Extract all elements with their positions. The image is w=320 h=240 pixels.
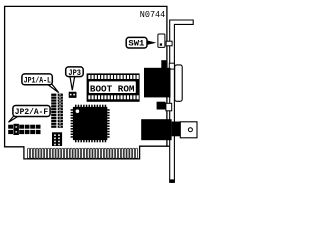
edge connector gold fingers [28,148,138,158]
stub pass-through tab on bracket [169,63,174,69]
BOOT ROM label box [88,81,136,94]
connector J2 body (black, on board) [141,119,171,140]
BOOT ROM bottom pin row [88,95,138,99]
label JP2/A-F (callout) [9,116,19,122]
J2 jack pin circle [188,128,192,132]
small IC U2 (black with pin dots) [52,132,62,146]
connector stub above J1 [161,60,166,68]
BOOT ROM chip body [87,73,140,101]
U1 pin-1 dot [76,109,80,113]
IC U1 (QFP, black square with pins) [71,105,110,143]
svg-text:N0744: N0744 [140,10,165,20]
connector J1 body (black, on board) [144,68,171,98]
svg-text:JP3: JP3 [68,70,81,78]
J2 jack housing [180,122,197,138]
connector J1 external shell (through bracket) [175,65,183,101]
label JP3 (callout) [70,76,75,90]
jumper block JP2 (2 x 6) [8,125,40,134]
bracket (metal mounting bracket, right side) [170,20,194,182]
J2 stub through bracket [172,122,181,137]
jumper cap on JP2 column 2 [13,124,19,135]
board bottom edge continuation to bracket [167,145,170,147]
switch SW1 (body on right edge) [158,34,165,47]
BOOT ROM top pin row [88,75,138,79]
pin header JP1 (2 x 12) [51,94,63,128]
svg-text:JP2/A-F: JP2/A-F [15,109,49,117]
small component below J1 [157,102,166,110]
board outline (PCB with edge-connector notch) [5,6,167,159]
label SW1 (callout) [147,40,157,45]
jumper JP3 [69,92,77,98]
bracket bottom tip [170,179,175,182]
svg-text:SW1: SW1 [128,41,144,49]
SW1 pass-through tab on bracket [166,41,172,46]
svg-text:JP1/A-L: JP1/A-L [24,78,51,86]
its pass-through tab on bracket [166,103,172,111]
label JP1/A-L (callout) [47,84,59,93]
JP1 pin dots [59,94,60,127]
svg-text:BOOT ROM: BOOT ROM [90,84,135,94]
